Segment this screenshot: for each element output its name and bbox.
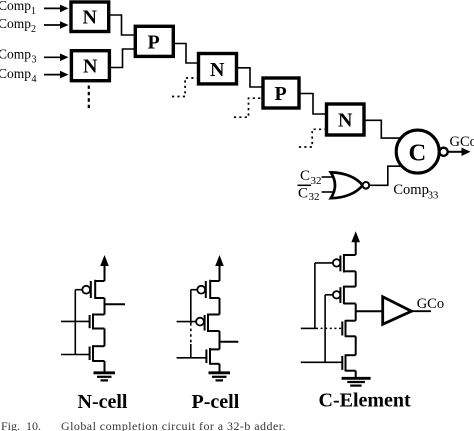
C-element NMOS Q10 [301,354,356,371]
P-cell ground [209,373,231,381]
wire buffer output [412,310,432,312]
svg-text:N: N [83,56,98,78]
svg-text:N-cell: N-cell [78,391,128,413]
C-element supply arrow [351,231,360,255]
svg-text:2: 2 [31,24,36,35]
output inversion bubble [440,148,448,156]
svg-text:C: C [409,140,427,167]
C-element rail wire 3 [355,336,357,355]
wire P2 to N4 [299,94,327,115]
label Comp4 [0,66,37,85]
svg-text:N: N [83,7,98,29]
C-element NMOS Q9 [301,320,356,337]
P-cell left vertical gate wire [190,290,192,358]
svg-text:4: 4 [32,74,37,85]
C-element source rail wire [355,371,357,378]
P-cell mid rail wire [219,331,221,349]
svg-text:C: C [298,186,308,202]
label C32 [300,168,322,187]
dashed input elbow to P2 [234,98,263,117]
C-element PMOS Q7 [315,254,356,273]
svg-text:33: 33 [428,191,439,202]
svg-text:3: 3 [32,55,37,66]
label Comp3 [0,47,37,66]
label Comp1 [0,0,36,17]
input arrow Comp4 [44,71,69,79]
dashed continuation below N2 [88,86,90,112]
P-cell NMOS Q6 [177,348,220,365]
wire N3 to P2 [237,68,264,87]
svg-text:32: 32 [311,175,322,187]
wire N1 to P1 [109,15,136,35]
wire NOR to C element [369,166,401,185]
P-cell output wire [220,341,239,343]
N-cell box N4 [327,104,365,135]
buffer triangle U2 [383,297,412,325]
P-cell source rail wire [219,364,221,373]
N-cell box N3 [199,54,237,84]
C-element rail wire 1 [355,271,357,286]
label Comp33 [393,182,438,202]
input arrow Comp2 [44,21,69,29]
svg-text:1: 1 [31,6,36,17]
N-cell PMOS Q1 [75,280,104,299]
N-cell NMOS Q2 [61,314,105,330]
label C32 bar [298,185,320,203]
svg-text:N: N [338,110,353,132]
C-element circle U1 [396,130,439,173]
svg-text:GCo: GCo [417,296,444,312]
svg-text:Comp: Comp [393,182,428,198]
P-cell box P1 [135,26,173,56]
svg-text:N: N [210,59,225,81]
svg-text:GCo: GCo [450,134,474,150]
P-cell box P2 [263,78,299,108]
N-cell supply arrow [100,255,109,281]
dashed input elbow to N4 [299,129,327,147]
svg-text:C: C [300,168,310,184]
output arrow GCo [448,148,471,156]
NOR gate G1 [331,172,363,198]
C-element inner left vertical wire [324,295,326,363]
input arrow Comp1 [44,5,69,13]
figure caption [1,419,286,431]
P-cell drain rail wire [219,298,221,315]
label Comp2 [0,16,36,35]
N-cell output wire [105,303,126,305]
C-element outer left vertical wire [314,263,316,329]
svg-text:P-cell: P-cell [192,391,240,413]
N-cell source rail wire [104,361,106,373]
svg-text:Global completion circuit for: Global completion circuit for a 32-b add… [61,419,286,431]
svg-text:Comp: Comp [0,0,31,13]
svg-text:32: 32 [309,191,320,203]
svg-text:P: P [148,32,160,54]
N-cell box N2 [71,51,109,81]
svg-text:Comp: Comp [0,47,31,62]
C-element output wire to buffer [356,310,383,312]
svg-text:P: P [275,83,287,105]
wire P1 to N3 [173,44,198,64]
N-cell NMOS Q3 [61,345,105,362]
N-cell mid rail wire [104,329,106,347]
wire C32 input [322,176,334,178]
svg-text:Comp: Comp [0,66,31,81]
svg-text:Comp: Comp [0,16,31,31]
svg-text:Fig. 10.: Fig. 10. [1,419,41,431]
wire C32bar input [322,191,335,193]
svg-text:C-Element: C-Element [319,389,412,411]
N-cell box N1 [71,2,109,32]
N-cell drain rail wire [104,298,106,315]
N-cell left vertical gate wire [74,290,76,355]
wire N4 to C element [364,120,401,138]
P-cell PMOS Q5 [177,314,220,333]
wire N2 to P1 [109,49,135,68]
P-cell supply arrow [215,255,224,281]
C-element PMOS Q8 [325,286,356,305]
NOR output bubble [363,182,370,189]
P-cell PMOS Q4 [191,280,220,299]
N-cell ground [94,373,116,381]
input arrow Comp3 [44,54,69,62]
C-element rail wire 2 [355,304,357,321]
C-element ground [342,378,371,385]
dashed input elbow to N3 [172,78,199,97]
